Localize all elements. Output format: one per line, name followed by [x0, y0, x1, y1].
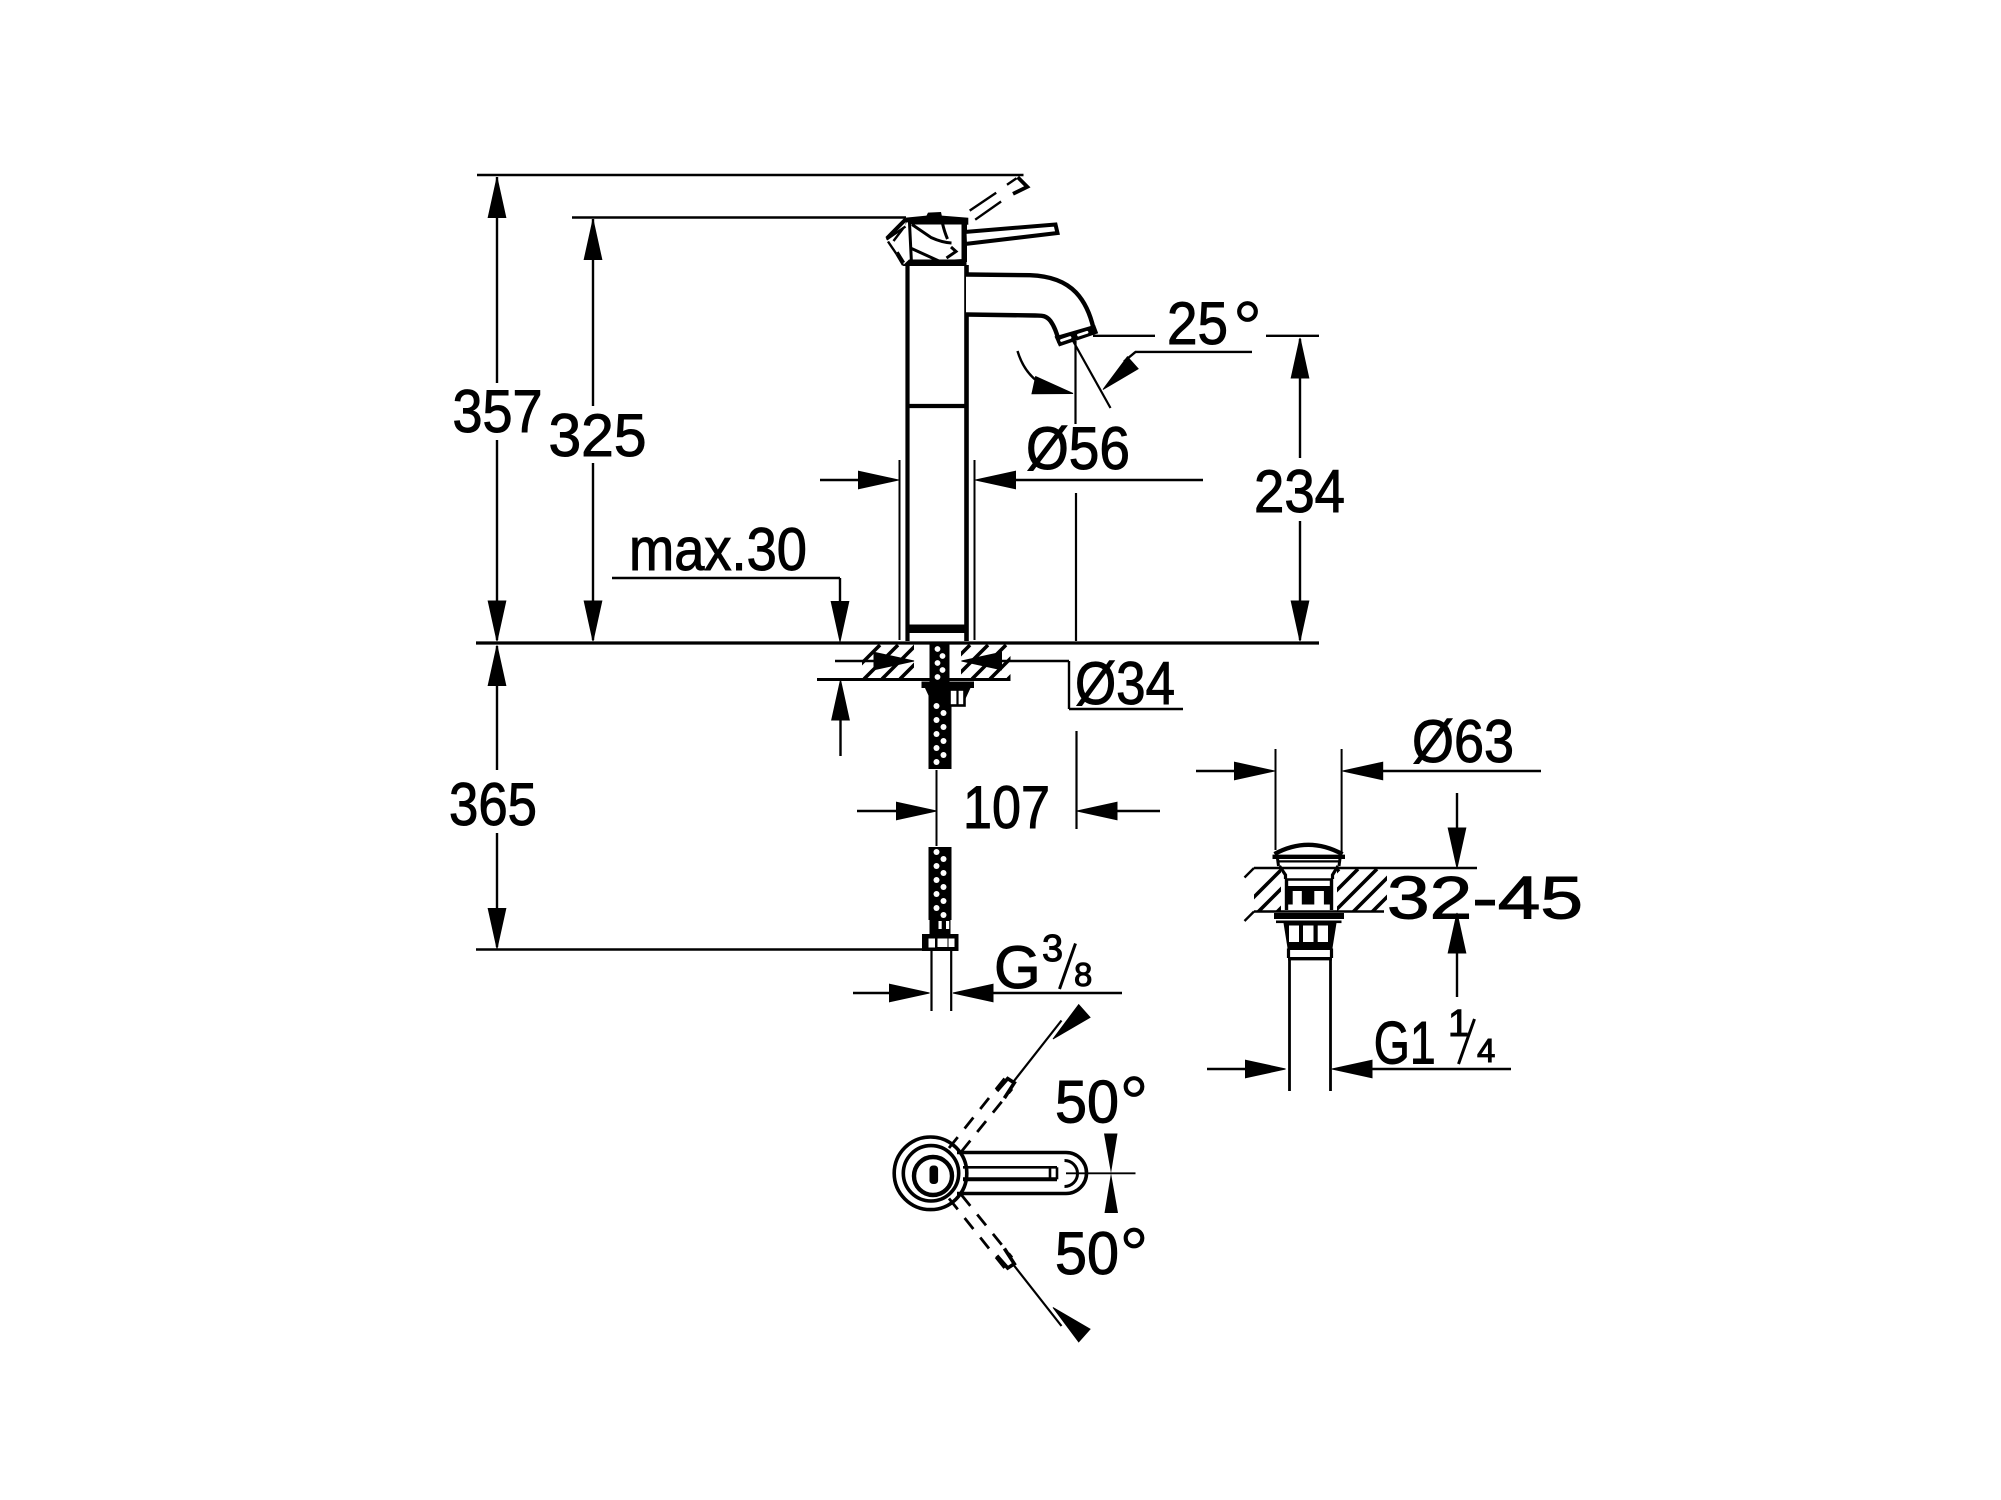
svg-text:G1: G1 [1374, 1010, 1436, 1077]
counter underside line [817, 678, 1011, 681]
band-left diagonal [887, 219, 906, 239]
diameter 63 dimension (drain) [1196, 708, 1541, 852]
bottom reference line [476, 948, 927, 951]
lever raised position (dashed) [970, 177, 1028, 220]
G3/8 tube [930, 951, 932, 1011]
spout mouth (outlet face) [1055, 325, 1099, 347]
svg-text:25: 25 [1167, 290, 1228, 357]
counter top line [476, 641, 1319, 644]
basket lower step [1287, 949, 1290, 959]
leader line [1135, 351, 1252, 353]
G 3/8 thread label [853, 928, 1122, 1002]
shank thread dots [935, 646, 946, 680]
svg-text:50: 50 [1055, 1069, 1119, 1136]
svg-text:G: G [994, 934, 1041, 1001]
svg-text:32-45: 32-45 [1387, 865, 1583, 932]
slanted 25deg line from outlet [1073, 340, 1111, 408]
drain flange [1274, 913, 1344, 919]
drain lower basket [1284, 923, 1337, 948]
handle top view: escutcheon circles [894, 1137, 967, 1210]
upper 50 degree handle swing [949, 1005, 1142, 1152]
vertical line from outlet [1074, 341, 1076, 424]
drain valve cap [1275, 845, 1343, 854]
lever (horizontal position) [965, 225, 1058, 245]
svg-text:3: 3 [1042, 928, 1063, 970]
dimension 107 [857, 774, 1160, 841]
sink deck top line [1254, 867, 1477, 869]
lever top view [957, 1153, 1086, 1194]
dimension 365 [449, 646, 537, 949]
top reference line 357 level [477, 174, 1024, 177]
drain body neck [1280, 866, 1286, 879]
cartridge sketch strokes [912, 224, 957, 262]
sink deck bottom line [1254, 910, 1384, 912]
svg-text:Ø56: Ø56 [1026, 415, 1130, 482]
hose centerline [936, 770, 938, 846]
arrowhead onto slanted line [1103, 357, 1138, 390]
drain body sides [1285, 879, 1288, 910]
cap skirt [1278, 859, 1279, 867]
handle centerline [1066, 1172, 1136, 1174]
pillar mid division [906, 404, 969, 408]
svg-text:8: 8 [1074, 956, 1092, 993]
hose end fitting [930, 920, 951, 934]
dimension 325 [549, 219, 647, 641]
threaded shank through counter [930, 644, 950, 682]
nut clip tab [950, 690, 965, 706]
flexible hose upper segment [929, 690, 952, 769]
svg-text:50: 50 [1055, 1220, 1119, 1287]
dimension 234 [1254, 338, 1345, 641]
max.30 label and pointer [612, 516, 849, 756]
reference line 325 level [572, 216, 906, 219]
left wedge outline [887, 227, 906, 266]
dashed lever tip [1013, 177, 1027, 194]
pillar lower dark band [906, 625, 969, 634]
outlet level reference line broken by text [1093, 335, 1155, 337]
dimension 357 [453, 177, 543, 641]
svg-text:325: 325 [549, 402, 647, 469]
flexible hose lower segment [929, 847, 952, 920]
swing arc with arrowhead [1018, 351, 1065, 393]
counter thickness pointer (under side) [832, 680, 850, 720]
svg-text:4: 4 [1477, 1032, 1495, 1069]
diameter 34 hole dimension [835, 650, 1183, 717]
center slot [930, 1166, 939, 1185]
svg-text:234: 234 [1254, 458, 1345, 525]
cartridge box outline [910, 223, 964, 264]
hose nut [922, 934, 959, 951]
svg-text:Ø63: Ø63 [1412, 708, 1514, 775]
svg-text:max.30: max.30 [629, 516, 807, 583]
svg-text:107: 107 [963, 774, 1050, 841]
faucet body pillar [906, 265, 969, 641]
cartridge bottom band [903, 260, 967, 267]
drain body slot band [1287, 886, 1332, 905]
handle span arrows (bowtie) [1104, 1134, 1118, 1214]
handle base / cartridge sketch [887, 212, 969, 239]
svg-text:365: 365 [449, 771, 537, 838]
cartridge right thick edge [962, 222, 967, 262]
spout [966, 275, 1094, 341]
mounting nut [922, 682, 975, 689]
svg-text:Ø34: Ø34 [1075, 650, 1175, 717]
lower 50 degree handle swing [949, 1195, 1142, 1342]
lever slot top view [963, 1166, 1057, 1169]
diameter 56 dimension [820, 415, 1203, 640]
drain tailpipe [1288, 959, 1291, 1091]
top black band with bump [906, 212, 969, 226]
aerator notches [1062, 332, 1088, 340]
wedge inner lines [894, 229, 905, 263]
25 degree spout angle dimension [1018, 290, 1320, 829]
sink deck hatch [1236, 869, 1434, 915]
dimension 32-45 (deck thickness) [1387, 793, 1583, 997]
svg-text:357: 357 [453, 378, 543, 445]
G 1 1/4 thread label (drain tailpipe) [1207, 1003, 1511, 1078]
